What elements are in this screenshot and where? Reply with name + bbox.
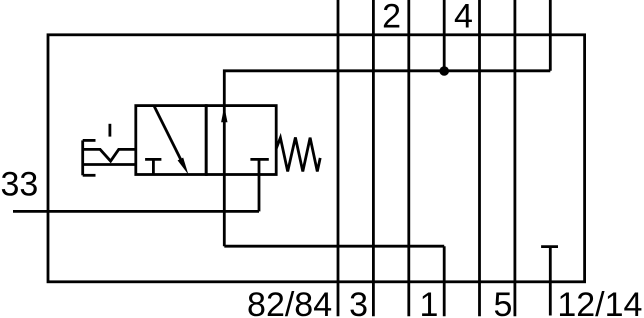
wire 12/14 top segment <box>549 0 552 71</box>
svg-text:1: 1 <box>420 286 439 318</box>
return spring <box>276 137 320 171</box>
enclosure box (sub-base outline) <box>48 35 585 282</box>
svg-text:2: 2 <box>382 0 401 36</box>
wire 1 top segment (ends at junction dot) <box>443 0 446 71</box>
manual override bracket bottom tip <box>83 174 96 177</box>
blocked port T in right square (stem runs down to line 33) <box>258 159 261 211</box>
wire 1 bottom segment (stub to label 1) <box>443 246 446 316</box>
junction dot <box>439 66 449 76</box>
svg-text:5: 5 <box>493 286 512 318</box>
wire 5 (vertical net line) <box>514 0 517 316</box>
wire 4 (vertical net line) <box>478 0 481 316</box>
blocked port T in left square <box>152 159 155 174</box>
valve body right square <box>206 106 276 175</box>
wire port 1 lower horizontal <box>224 245 444 248</box>
manual override bracket vertical <box>81 140 84 175</box>
arrowhead of exhaust diagonal <box>178 158 189 175</box>
flow arrow up in right square <box>221 106 227 122</box>
svg-text:82/84: 82/84 <box>247 286 332 318</box>
svg-text:3: 3 <box>349 286 368 318</box>
blocked port T of wire 12/14 <box>541 245 558 248</box>
manual override top line with detent notch <box>83 149 136 161</box>
wire pilot horizontal (port 2 line to dot) <box>224 71 550 246</box>
wire 3 (vertical net line) <box>372 0 375 316</box>
wire 2 (vertical net line) <box>407 0 410 316</box>
manual override bottom line <box>83 163 136 166</box>
wire 82/84 (vertical net line) <box>337 0 340 316</box>
manual override bracket top tip <box>83 139 96 142</box>
wire 33 horizontal <box>13 210 259 213</box>
detent tick <box>109 124 112 137</box>
wire 12/14 bottom stub <box>549 247 552 316</box>
exhaust diagonal in left square <box>154 106 183 164</box>
valve body left square <box>136 106 206 175</box>
svg-text:33: 33 <box>0 165 38 203</box>
svg-text:4: 4 <box>454 0 473 36</box>
svg-text:12/14: 12/14 <box>557 286 642 318</box>
